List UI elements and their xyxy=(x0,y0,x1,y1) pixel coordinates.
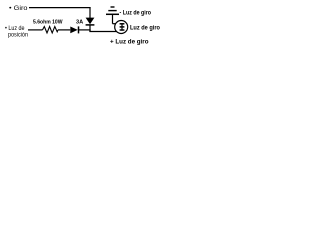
wire from resistor R1 to diode D2 xyxy=(58,29,70,31)
resistor R1 5.6ohm 10W (zigzag) xyxy=(43,27,59,33)
diode D1 3A (vertical, cathode down) xyxy=(86,18,95,25)
node Giro label xyxy=(9,5,28,12)
svg-text:5.6ohm 10W: 5.6ohm 10W xyxy=(33,19,63,25)
svg-text:Luz de giro: Luz de giro xyxy=(130,25,160,32)
label 5.6ohm 10W for resistor R1 xyxy=(33,19,63,25)
ground (inverted chassis ground, - Luz de giro) xyxy=(106,7,119,14)
lamp L1 Luz de giro (circle) xyxy=(115,21,128,34)
label - Luz de giro xyxy=(120,11,152,17)
svg-text:- Luz de giro: - Luz de giro xyxy=(120,11,152,17)
wire vertical drop to diode D1 xyxy=(89,7,91,18)
wire below diode D1 down to junction xyxy=(89,25,91,32)
wire from diode D2 to junction xyxy=(79,29,91,31)
svg-text:posición: posición xyxy=(8,31,28,38)
wire junction to lamp (down then right) xyxy=(89,30,116,32)
wire top horizontal from Giro to corner xyxy=(29,7,91,9)
node Luz de posicion label xyxy=(5,25,28,38)
svg-text:+ Luz de giro: + Luz de giro xyxy=(110,38,149,45)
wire from ground down to lamp top-left xyxy=(113,14,117,23)
wire from Luz de posicion to resistor R1 xyxy=(28,29,43,31)
svg-text:• Giro: • Giro xyxy=(9,5,28,12)
label 3A for diode D1 xyxy=(76,20,83,26)
lamp filament bars xyxy=(120,23,125,30)
svg-text:3A: 3A xyxy=(76,20,83,26)
label Luz de giro (right of lamp) xyxy=(130,25,160,32)
diode D2 (horizontal, cathode right) xyxy=(70,26,78,33)
label + Luz de giro (below lamp) xyxy=(110,38,149,45)
